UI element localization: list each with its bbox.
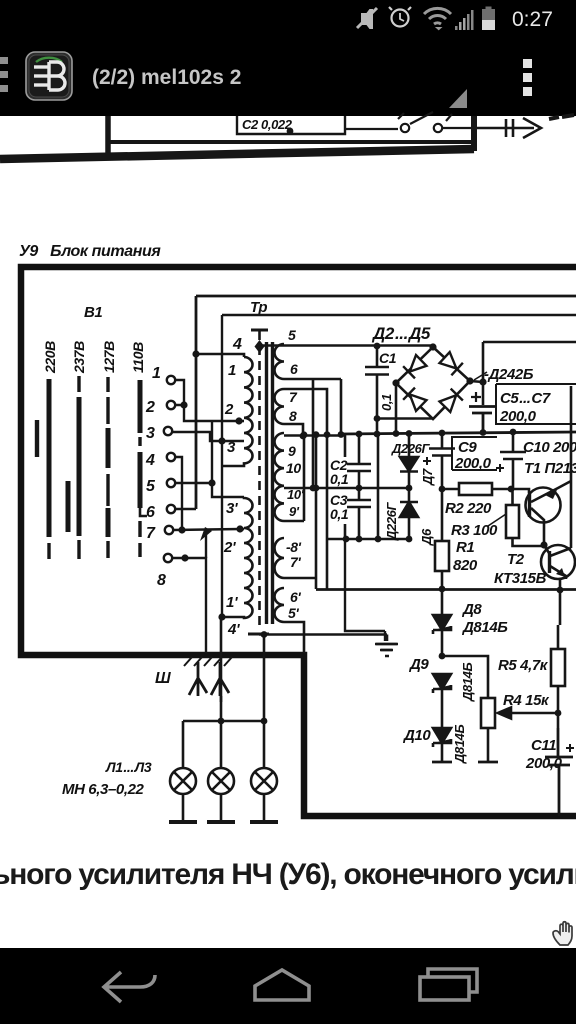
ground symbol secondary — [376, 644, 398, 656]
STATUSBAR — [357, 7, 553, 32]
svg-text:237В: 237В — [71, 341, 87, 374]
secondary winding 7-8 — [275, 389, 285, 424]
wire w6p down — [284, 622, 304, 653]
plus sign C5 — [471, 392, 481, 402]
contact bar 110V dash — [138, 437, 141, 446]
cut text remnant top right — [549, 115, 574, 119]
capacitor C1 — [365, 346, 389, 435]
junction low b — [356, 536, 363, 543]
primary tap 7 wire — [240, 528, 244, 531]
core bar right — [271, 342, 274, 624]
R4 end bar — [478, 761, 498, 764]
svg-text:С9: С9 — [458, 439, 477, 456]
terminal 1 wire — [175, 380, 184, 403]
lamp feed wire 1 — [220, 696, 223, 721]
screen top bar — [251, 329, 268, 332]
lamp L2 — [208, 768, 234, 794]
screen junction diamond — [255, 340, 265, 353]
R1 leads — [441, 489, 444, 589]
zener D10 — [433, 728, 451, 762]
svg-text:200,0: 200,0 — [454, 455, 492, 472]
lamp L2 stem — [220, 721, 223, 821]
wire bridge bottom to C1 — [377, 417, 433, 420]
junction rail R1 — [439, 586, 446, 593]
junction T1-T2 — [540, 541, 547, 548]
svg-text:С2 0,022: С2 0,022 — [242, 117, 293, 132]
T2 base lead — [544, 545, 549, 553]
svg-text:Ш: Ш — [155, 670, 171, 687]
switch lever — [410, 112, 433, 124]
diode D6 — [400, 502, 418, 539]
switch B contact 2 — [434, 124, 442, 132]
primary winding upper — [222, 357, 253, 466]
transistor T1 — [526, 488, 561, 523]
R4 wiper arrow — [498, 708, 557, 719]
primary winding lower — [221, 497, 253, 618]
contact bar 237V short — [66, 481, 71, 532]
wire switch to frame — [442, 127, 474, 129]
wifi icon — [424, 8, 451, 29]
contact bar 110V dash bottom — [138, 521, 141, 557]
switch B contact 1 — [401, 124, 409, 132]
svg-text:10: 10 — [286, 460, 301, 476]
junction bridge left — [392, 379, 399, 386]
primary tap 2 wire — [239, 420, 244, 423]
terminal 2 wire — [175, 405, 239, 421]
wire winding5 to bridge — [259, 344, 433, 347]
svg-text:0,1: 0,1 — [330, 506, 349, 522]
wire t7 bus down — [205, 535, 207, 558]
C9 label box — [452, 437, 497, 470]
TOPSTRIP previous schematic remnant — [0, 112, 574, 159]
NAVBAR — [0, 948, 576, 1024]
junction C1 top — [374, 343, 381, 350]
contact bar 127V dash mid — [106, 474, 109, 506]
terminal 6 wire — [175, 508, 196, 510]
svg-text:1: 1 — [152, 365, 161, 382]
wire w9 down — [284, 435, 359, 456]
svg-text:3': 3' — [226, 500, 238, 517]
wire to primary top — [196, 354, 244, 357]
junction t7c — [236, 525, 243, 532]
junction low c — [375, 536, 382, 543]
junction lamp rail b — [261, 718, 268, 725]
svg-text:С1: С1 — [379, 350, 397, 366]
frame bottom bar — [0, 149, 474, 159]
junction rail c — [439, 430, 446, 437]
output arrow wire — [477, 127, 534, 130]
mute icon — [357, 8, 377, 28]
junction low a — [343, 536, 350, 543]
wire w8p down — [284, 435, 316, 589]
svg-text:-Д242Б: -Д242Б — [484, 366, 534, 383]
junction t3 — [218, 437, 225, 444]
wire t5 bus down — [212, 421, 244, 497]
terminal 3 wire — [172, 432, 244, 441]
wire w6 down — [284, 379, 341, 488]
svg-text:Д226Г: Д226Г — [384, 502, 399, 541]
lamp L2 cross — [212, 772, 230, 790]
potentiometer R4 — [481, 698, 495, 728]
battery icon — [482, 7, 495, 31]
wire mid rail — [284, 487, 409, 490]
zener D8 — [433, 589, 451, 656]
svg-text:ьного усилителя НЧ (У6), оконе: ьного усилителя НЧ (У6), оконечного усил… — [0, 858, 576, 891]
svg-text:R5 4,7к: R5 4,7к — [498, 657, 549, 674]
junction rail1 — [192, 350, 199, 357]
svg-text:7': 7' — [290, 554, 301, 570]
wire lamp feed 2 — [263, 635, 266, 722]
svg-text:127В: 127В — [101, 341, 117, 373]
junction D8 bottom — [439, 653, 446, 660]
junction D7 rail — [406, 430, 413, 437]
svg-text:Д10: Д10 — [402, 727, 431, 744]
junction rail T2 — [557, 587, 564, 594]
svg-text:820: 820 — [453, 557, 478, 574]
hand cursor — [553, 922, 572, 945]
svg-text:Д2 ... Д5: Д2 ... Д5 — [371, 324, 431, 343]
bridge diode BR — [439, 389, 463, 413]
terminal 8 — [164, 554, 172, 562]
svg-text:R1: R1 — [456, 539, 474, 556]
svg-text:Т2: Т2 — [507, 551, 525, 568]
R3 label pointer — [488, 514, 506, 526]
lamp rail — [183, 720, 264, 723]
connector hatching — [184, 657, 232, 666]
junction rail a3 — [301, 431, 308, 438]
capacitor C5 electrolytic — [469, 407, 495, 433]
wire w8 down — [284, 424, 303, 436]
T1 base wire — [511, 489, 529, 493]
terminal 2 — [167, 401, 175, 409]
junction R5 wiper — [555, 710, 562, 717]
junction rail b2 — [393, 430, 400, 437]
C11 plus — [566, 744, 574, 752]
arrow head — [523, 118, 541, 138]
svg-text:Тр: Тр — [250, 299, 267, 316]
lamp L3 — [251, 768, 277, 794]
T1 emitter arrow — [545, 490, 557, 499]
T1 collector — [531, 508, 544, 545]
back button — [104, 972, 155, 1002]
svg-text:5: 5 — [288, 327, 296, 343]
svg-text:R2 220: R2 220 — [445, 500, 492, 517]
ground symbol left — [345, 539, 397, 650]
junction mid a — [310, 485, 317, 492]
svg-text:R4 15к: R4 15к — [503, 692, 550, 709]
svg-text:9: 9 — [288, 443, 296, 459]
svg-text:8: 8 — [157, 572, 166, 589]
MAINBOX border and label — [19, 243, 576, 816]
junction t7a — [178, 526, 185, 533]
terminal 6 — [167, 505, 175, 513]
svg-text:С10 200,0: С10 200,0 — [523, 439, 576, 456]
D chain end bar — [432, 761, 452, 764]
terminal 3 — [164, 427, 172, 435]
wire top rail 2 — [222, 315, 576, 617]
junction bridge top — [429, 343, 436, 350]
T2 emitter — [550, 566, 566, 591]
terminal 7 — [165, 526, 173, 534]
junction C5 top — [479, 378, 486, 385]
home button — [255, 970, 309, 1000]
svg-text:Д814Б: Д814Б — [460, 663, 475, 702]
contact bar 127V solid mid — [106, 428, 111, 468]
wire w10 tap — [284, 435, 304, 521]
svg-text:Д8: Д8 — [461, 601, 482, 618]
svg-text:2: 2 — [145, 399, 155, 416]
wire output top — [483, 341, 576, 344]
junction t2 — [180, 401, 187, 408]
app icon EBookDroid — [26, 52, 72, 100]
junction R2 right — [508, 486, 515, 493]
svg-text:0,1: 0,1 — [330, 471, 349, 487]
svg-text:Д814Б: Д814Б — [452, 725, 467, 764]
svg-text:6': 6' — [290, 589, 301, 605]
svg-text:110В: 110В — [130, 342, 146, 373]
core bar left — [265, 342, 268, 624]
svg-text:4: 4 — [145, 452, 155, 469]
lamp L1 ground — [169, 820, 197, 824]
svg-text:В1: В1 — [84, 304, 102, 321]
svg-text:9': 9' — [289, 504, 300, 519]
resistor R3 — [506, 505, 519, 538]
svg-text:С5 ... С7: С5 ... С7 — [500, 390, 551, 407]
junction lamp feed — [261, 631, 268, 638]
junction mid b — [356, 485, 363, 492]
resistor R2 — [459, 483, 492, 495]
svg-text:5': 5' — [288, 605, 299, 621]
lamp L3 cross — [255, 772, 273, 790]
hamburger edge bars — [0, 57, 8, 92]
junction rail a4 — [313, 431, 320, 438]
main plus rail — [341, 432, 576, 434]
capacitor C9 — [429, 432, 455, 489]
frame corner right — [471, 116, 477, 151]
T2 base bar — [548, 551, 551, 573]
main border frame — [21, 267, 576, 816]
contact bar 237V dashes — [77, 376, 80, 559]
svg-text:Д226Г: Д226Г — [391, 441, 430, 456]
junction t8 — [181, 554, 188, 561]
junction bridge right — [466, 377, 473, 384]
junction lamp rail a — [218, 718, 225, 725]
svg-text:4: 4 — [232, 336, 242, 353]
T2 emitter arrow — [556, 568, 565, 577]
junction dot — [287, 128, 294, 135]
contact bar 237V long — [77, 397, 82, 536]
junction diodes mid — [406, 485, 413, 492]
terminal 5 — [167, 479, 175, 487]
connector fork 1 — [189, 662, 207, 696]
junction w8-w9 — [300, 433, 307, 440]
BOTTOM lamps, connector — [62, 657, 278, 822]
junction rail d — [480, 429, 487, 436]
secondary winding 5-6 — [275, 344, 285, 379]
wire bridge left down — [395, 383, 398, 435]
contact bar 110V solid top — [138, 380, 143, 433]
R2 leads — [442, 488, 511, 491]
zero rail — [316, 588, 576, 591]
svg-text:2: 2 — [224, 401, 234, 418]
lamp L2 ground — [207, 820, 235, 824]
terminal 7 wire — [173, 529, 240, 530]
junction rail b — [374, 431, 381, 438]
svg-text:Д6: Д6 — [419, 528, 434, 546]
CAPTION — [0, 858, 576, 945]
contact bar 127V solid low — [106, 508, 111, 537]
lamp L1 stem — [182, 721, 185, 821]
junction rail e — [510, 429, 517, 436]
svg-text:220В: 220В — [42, 341, 58, 374]
connector fork 2 — [211, 662, 229, 696]
contact bar 220V dash — [47, 543, 50, 559]
resize triangle handle — [449, 89, 467, 108]
terminal 4 — [167, 453, 175, 461]
diode D7 — [400, 432, 418, 501]
svg-text:4': 4' — [227, 621, 240, 638]
svg-text:Л1 ... Л3: Л1 ... Л3 — [105, 759, 152, 775]
svg-text:У9 Блок питания: У9 Блок питания — [19, 243, 161, 260]
svg-text:С11: С11 — [531, 737, 556, 754]
switch tick 2 — [446, 114, 452, 121]
T2 collector — [550, 548, 571, 556]
zener D9 — [433, 674, 451, 728]
contact bar 220V short — [35, 420, 39, 457]
contact bar 110V solid low — [138, 452, 143, 508]
bridge diode BL — [403, 388, 427, 412]
contact bar 110V hook — [140, 508, 147, 516]
bridge diode TR — [439, 351, 463, 375]
bridge diode TL — [403, 354, 427, 378]
lamp L1 cross — [174, 772, 192, 790]
svg-text:Д7: Д7 — [420, 468, 435, 486]
wire w5p ground lead — [259, 635, 387, 642]
resistor R1 — [435, 541, 449, 571]
capacitor C3 — [347, 500, 371, 539]
SELECTOR voltage selector B1 — [37, 304, 244, 653]
secondary winding 6p-5p — [275, 588, 285, 622]
APPBAR — [0, 52, 532, 108]
svg-text:6: 6 — [290, 361, 298, 377]
secondary winding 9-10 — [275, 433, 285, 521]
R5 leads — [558, 591, 560, 728]
terminal 5 wire — [175, 482, 212, 484]
svg-text:6: 6 — [146, 504, 155, 521]
secondary winding 8p-7p — [275, 538, 285, 578]
svg-text:200,0: 200,0 — [499, 408, 537, 425]
resistor R5 — [551, 649, 565, 686]
svg-text:2': 2' — [223, 539, 236, 556]
wire to switch — [345, 128, 398, 130]
R3 leads — [513, 489, 546, 546]
capacitor C2 — [347, 455, 371, 500]
junction t5 — [208, 479, 215, 486]
wire rail start — [340, 379, 343, 435]
contact bar 220V long — [47, 379, 52, 537]
R4 bottom lead — [487, 728, 490, 762]
svg-text:Д814Б: Д814Б — [461, 619, 508, 636]
status+app bar background — [0, 0, 576, 116]
svg-text:Д9: Д9 — [408, 656, 429, 673]
contact bar 127V dashed top — [106, 377, 109, 424]
overflow menu dots — [523, 59, 532, 96]
label pointer — [474, 372, 487, 380]
wire x378 — [377, 432, 380, 539]
svg-text:МН 6,3–0,22: МН 6,3–0,22 — [62, 781, 145, 798]
transistor T2 — [541, 545, 575, 579]
REGULATOR T1 T2 area — [316, 386, 576, 816]
frame corner left — [105, 116, 111, 156]
wire bridge right to C5 — [470, 342, 483, 405]
junction C1 bottom — [374, 415, 381, 422]
capacitor C2 0,022 label box — [237, 116, 345, 134]
svg-text:1: 1 — [228, 362, 236, 379]
wire primary bottom down — [220, 617, 223, 702]
alarm clock icon — [389, 7, 411, 27]
capacitor C9 plus — [423, 457, 431, 465]
junction mid a2 — [313, 485, 320, 492]
junction primary bottom a — [218, 613, 225, 620]
C5 label box — [496, 384, 576, 424]
wire top rail 1 — [196, 296, 576, 509]
bridge diamond — [396, 347, 470, 419]
svg-text:(2/2) mel102s 2: (2/2) mel102s 2 — [92, 66, 241, 89]
capacitor C10 plus — [496, 464, 504, 472]
capacitor C10 — [500, 432, 526, 489]
terminal 1 — [167, 376, 175, 384]
T1 base bar — [528, 493, 531, 517]
svg-text:0:27: 0:27 — [512, 8, 553, 31]
terminal 4 wire — [175, 457, 182, 530]
svg-text:Т1 П213: Т1 П213 — [524, 460, 576, 477]
wire to R4 top — [442, 656, 488, 698]
junction tap2 — [235, 417, 242, 424]
TRANSFORMER — [192, 296, 576, 702]
recents button — [420, 969, 477, 1000]
wire w7 down — [284, 389, 327, 589]
contact bar 127V dash bottom — [106, 541, 109, 558]
lamp L3 ground — [250, 820, 278, 824]
terminal 8 wire — [172, 558, 206, 653]
capacitor C11 — [545, 728, 573, 816]
junction rail a6 — [338, 431, 345, 438]
screen bottom bar — [248, 633, 269, 636]
lamp L3 stem — [263, 721, 266, 821]
svg-text:3: 3 — [227, 439, 236, 456]
svg-text:0,1: 0,1 — [379, 394, 394, 411]
junction rail a5 — [324, 431, 331, 438]
lamp L1 — [170, 768, 196, 794]
junction low d — [406, 536, 413, 543]
screen dashed line — [258, 331, 261, 625]
svg-text:3: 3 — [146, 425, 155, 442]
svg-text:8: 8 — [289, 408, 297, 424]
junction rail a — [356, 431, 363, 438]
svg-text:КТ315В: КТ315В — [494, 570, 547, 587]
switch tick — [398, 113, 404, 119]
frame bottom edge — [108, 140, 474, 144]
svg-text:-8': -8' — [286, 539, 302, 555]
arrow double tick — [505, 119, 508, 137]
svg-text:1': 1' — [226, 594, 238, 611]
RECTIFIER bridge area — [259, 324, 576, 721]
signal bars icon — [455, 10, 474, 30]
wire low rail — [327, 538, 409, 541]
T1 emitter — [531, 386, 571, 548]
junction R2 left — [439, 486, 446, 493]
junction t7b — [200, 527, 212, 541]
